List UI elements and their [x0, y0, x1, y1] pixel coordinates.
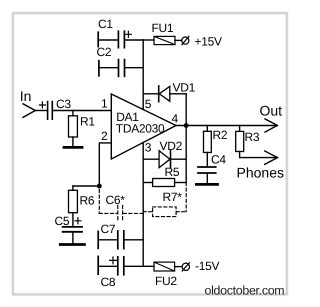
svg-text:C2: C2 — [97, 45, 112, 59]
svg-text:1: 1 — [101, 96, 108, 110]
svg-text:R5: R5 — [165, 165, 180, 179]
svg-text:TDA2030: TDA2030 — [116, 121, 165, 135]
svg-text:C6*: C6* — [106, 193, 126, 207]
svg-text:4: 4 — [172, 112, 179, 126]
svg-text:R7*: R7* — [163, 190, 183, 204]
svg-text:VD2: VD2 — [160, 139, 183, 153]
svg-text:+15V: +15V — [195, 34, 222, 48]
svg-text:C4: C4 — [211, 153, 226, 167]
svg-text:5: 5 — [145, 97, 152, 111]
svg-text:C3: C3 — [56, 97, 71, 111]
svg-text:oldoctober.com: oldoctober.com — [205, 284, 285, 298]
svg-text:Phones: Phones — [237, 165, 284, 181]
svg-text:R6: R6 — [80, 194, 95, 208]
svg-text:-15V: -15V — [195, 259, 219, 273]
svg-text:VD1: VD1 — [173, 81, 196, 95]
svg-text:FU2: FU2 — [155, 274, 177, 288]
svg-text:C1: C1 — [98, 17, 113, 31]
svg-text:Out: Out — [260, 102, 283, 118]
svg-text:R1: R1 — [80, 115, 95, 129]
svg-text:R2: R2 — [213, 128, 228, 142]
svg-text:2: 2 — [101, 129, 108, 143]
svg-text:3: 3 — [145, 141, 152, 155]
svg-text:C5: C5 — [55, 214, 70, 228]
svg-text:In: In — [20, 88, 32, 104]
svg-text:C8: C8 — [101, 275, 116, 289]
svg-text:C7: C7 — [101, 222, 116, 236]
svg-text:R3: R3 — [245, 130, 260, 144]
svg-text:FU1: FU1 — [152, 21, 174, 35]
